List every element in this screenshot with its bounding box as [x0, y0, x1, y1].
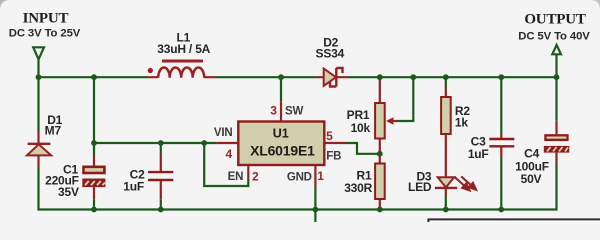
svg-text:1uF: 1uF: [468, 147, 489, 161]
svg-text:1k: 1k: [455, 115, 468, 129]
svg-text:10k: 10k: [351, 121, 371, 135]
svg-text:LED: LED: [408, 180, 432, 194]
svg-text:OUTPUT: OUTPUT: [524, 12, 586, 28]
svg-text:5: 5: [326, 129, 333, 143]
svg-text:DC 3V To 25V: DC 3V To 25V: [9, 27, 81, 39]
svg-text:2: 2: [252, 170, 259, 184]
svg-text:SW: SW: [285, 105, 303, 117]
svg-text:4: 4: [226, 147, 233, 161]
svg-text:DC 5V To 40V: DC 5V To 40V: [518, 30, 590, 42]
svg-text:50V: 50V: [521, 172, 542, 186]
svg-text:3: 3: [270, 103, 277, 117]
svg-text:FB: FB: [326, 150, 341, 162]
svg-text:35V: 35V: [58, 185, 79, 199]
svg-text:SS34: SS34: [316, 46, 345, 60]
svg-text:33uH / 5A: 33uH / 5A: [157, 42, 210, 56]
svg-text:VIN: VIN: [214, 127, 233, 139]
svg-text:XL6019E1: XL6019E1: [250, 143, 315, 159]
svg-text:INPUT: INPUT: [23, 11, 69, 27]
svg-text:EN: EN: [228, 171, 244, 183]
svg-text:M7: M7: [45, 124, 62, 138]
svg-text:1: 1: [317, 169, 324, 183]
svg-text:U1: U1: [273, 127, 289, 141]
svg-text:1uF: 1uF: [123, 179, 144, 193]
svg-text:330R: 330R: [344, 181, 372, 195]
svg-text:GND: GND: [287, 171, 312, 183]
